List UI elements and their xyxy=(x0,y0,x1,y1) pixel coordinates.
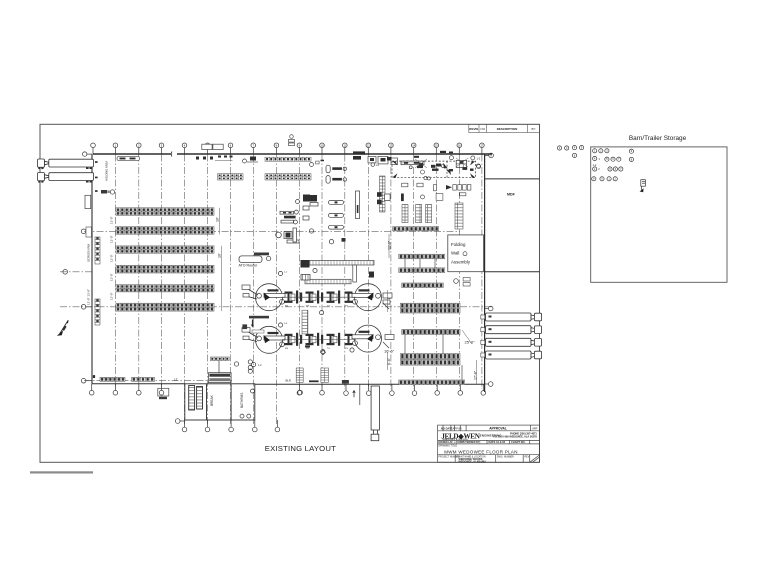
svg-text:REV: REV xyxy=(525,457,530,459)
svg-text:16'-6": 16'-6" xyxy=(384,349,395,354)
svg-text:Wall: Wall xyxy=(451,251,459,256)
svg-text:MWM WEDOWEE FLOOR PLAN: MWM WEDOWEE FLOOR PLAN xyxy=(444,449,518,454)
svg-text:1-2: 1-2 xyxy=(593,163,597,167)
svg-text:RS: RS xyxy=(285,348,289,350)
svg-text:DESCRIPTION: DESCRIPTION xyxy=(497,127,518,131)
svg-text:RS: RS xyxy=(285,306,289,308)
svg-text:13'-0": 13'-0" xyxy=(110,235,114,243)
svg-text:BLR: BLR xyxy=(286,378,291,382)
svg-text:MS: MS xyxy=(306,306,310,308)
svg-text:BATHRMS: BATHRMS xyxy=(240,393,244,408)
svg-text:13'-0": 13'-0" xyxy=(110,216,114,224)
svg-text:BY: BY xyxy=(531,127,535,131)
svg-text:13': 13' xyxy=(174,378,178,382)
svg-text:ATO Router: ATO Router xyxy=(239,264,259,268)
svg-text:NO DATE: NO DATE xyxy=(441,426,453,430)
svg-text:13'-0" 13'-0": 13'-0" 13'-0" xyxy=(87,289,91,305)
svg-text:MS: MS xyxy=(306,348,310,350)
svg-text:MDF: MDF xyxy=(507,193,516,197)
svg-text:SCREEN RM: SCREEN RM xyxy=(87,243,91,262)
svg-text:13'-0": 13'-0" xyxy=(110,254,114,262)
svg-text:12'-0": 12'-0" xyxy=(388,240,392,250)
svg-text:17'-8": 17'-8" xyxy=(474,370,478,380)
svg-text:DRAWING TITLE: DRAWING TITLE xyxy=(439,445,458,448)
svg-text:13'-0": 13'-0" xyxy=(110,292,114,300)
svg-text:BREAK: BREAK xyxy=(210,394,214,406)
svg-text:APP: APP xyxy=(532,426,537,430)
svg-text:EXISTING LAYOUT: EXISTING LAYOUT xyxy=(265,444,336,453)
svg-text:APPROVAL: APPROVAL xyxy=(489,426,507,430)
svg-text:1-2: 1-2 xyxy=(477,156,481,160)
svg-text:DRAWN LAF + (COMPUTERIZED BY): DRAWN LAF + (COMPUTERIZED BY) xyxy=(439,441,481,444)
svg-text:DWG. NUMBER: DWG. NUMBER xyxy=(497,457,514,459)
svg-text:WEDOWEE, ALABAMA: WEDOWEE, ALABAMA xyxy=(459,460,487,463)
svg-text:10': 10' xyxy=(217,253,221,258)
svg-text:13'-0": 13'-0" xyxy=(110,273,114,281)
svg-text:DATE 12-2-02: DATE 12-2-02 xyxy=(489,440,506,444)
svg-text:REVIS: REVIS xyxy=(469,127,478,131)
svg-text:Barn/Trailer Storage: Barn/Trailer Storage xyxy=(629,135,687,142)
svg-text:APP BY: APP BY xyxy=(453,426,463,430)
svg-text:Folding: Folding xyxy=(451,242,466,247)
svg-text:HOLDING AREA: HOLDING AREA xyxy=(105,161,109,181)
svg-text:P.O. BOX 999 WEDOWEE, ALA 3627: P.O. BOX 999 WEDOWEE, ALA 36278 xyxy=(493,435,537,438)
svg-text:25'-0": 25'-0" xyxy=(465,340,476,345)
svg-text:NO: NO xyxy=(481,127,486,131)
svg-text:Assembly: Assembly xyxy=(451,259,471,264)
svg-text:10': 10' xyxy=(215,217,219,222)
svg-text:CHART NO.: CHART NO. xyxy=(511,440,526,444)
